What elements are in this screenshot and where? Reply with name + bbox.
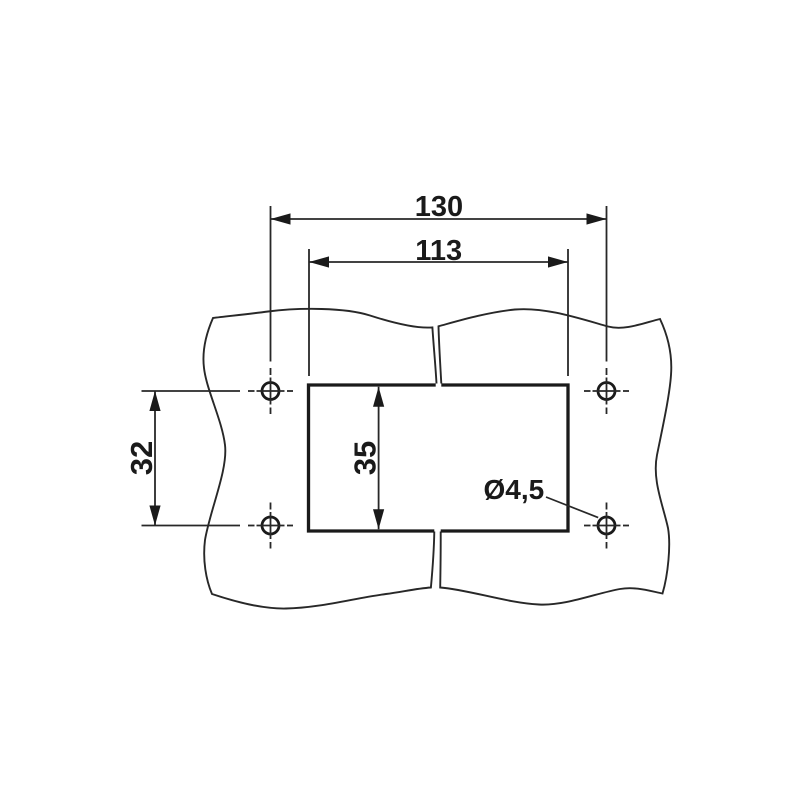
svg-text:113: 113 [415,235,462,267]
dimension line 130 [271,218,607,220]
hole top-right center mark [584,368,629,414]
extension line 130 right [606,206,608,362]
hole bottom-right circle [598,517,615,534]
panel outline left piece [203,309,436,609]
cutout rectangle (thick) right portion [441,385,568,531]
hole top-left center mark [248,368,293,414]
extension line 32 top [142,390,241,392]
hole bottom-left center mark [248,503,293,549]
hole top-right circle [598,383,615,400]
extension line 113 right [567,249,569,376]
hole bottom-right center mark [584,503,629,549]
extension line 32 bottom [142,525,241,527]
extension line 130 left [270,206,272,362]
dimension line 113 [309,261,568,263]
svg-text:Ø4,5: Ø4,5 [484,474,545,505]
leader line for hole diameter [546,497,598,518]
svg-text:130: 130 [415,191,463,223]
dimension line 32 [154,391,156,526]
svg-text:35: 35 [348,441,383,475]
extension line 113 left [308,249,310,376]
panel outline right piece [439,309,672,604]
dimension line 35 [378,387,380,529]
svg-text:32: 32 [124,441,159,475]
hole top-left circle [262,383,279,400]
hole bottom-left circle [262,517,279,534]
cutout rectangle (thick) left portion [309,385,436,531]
